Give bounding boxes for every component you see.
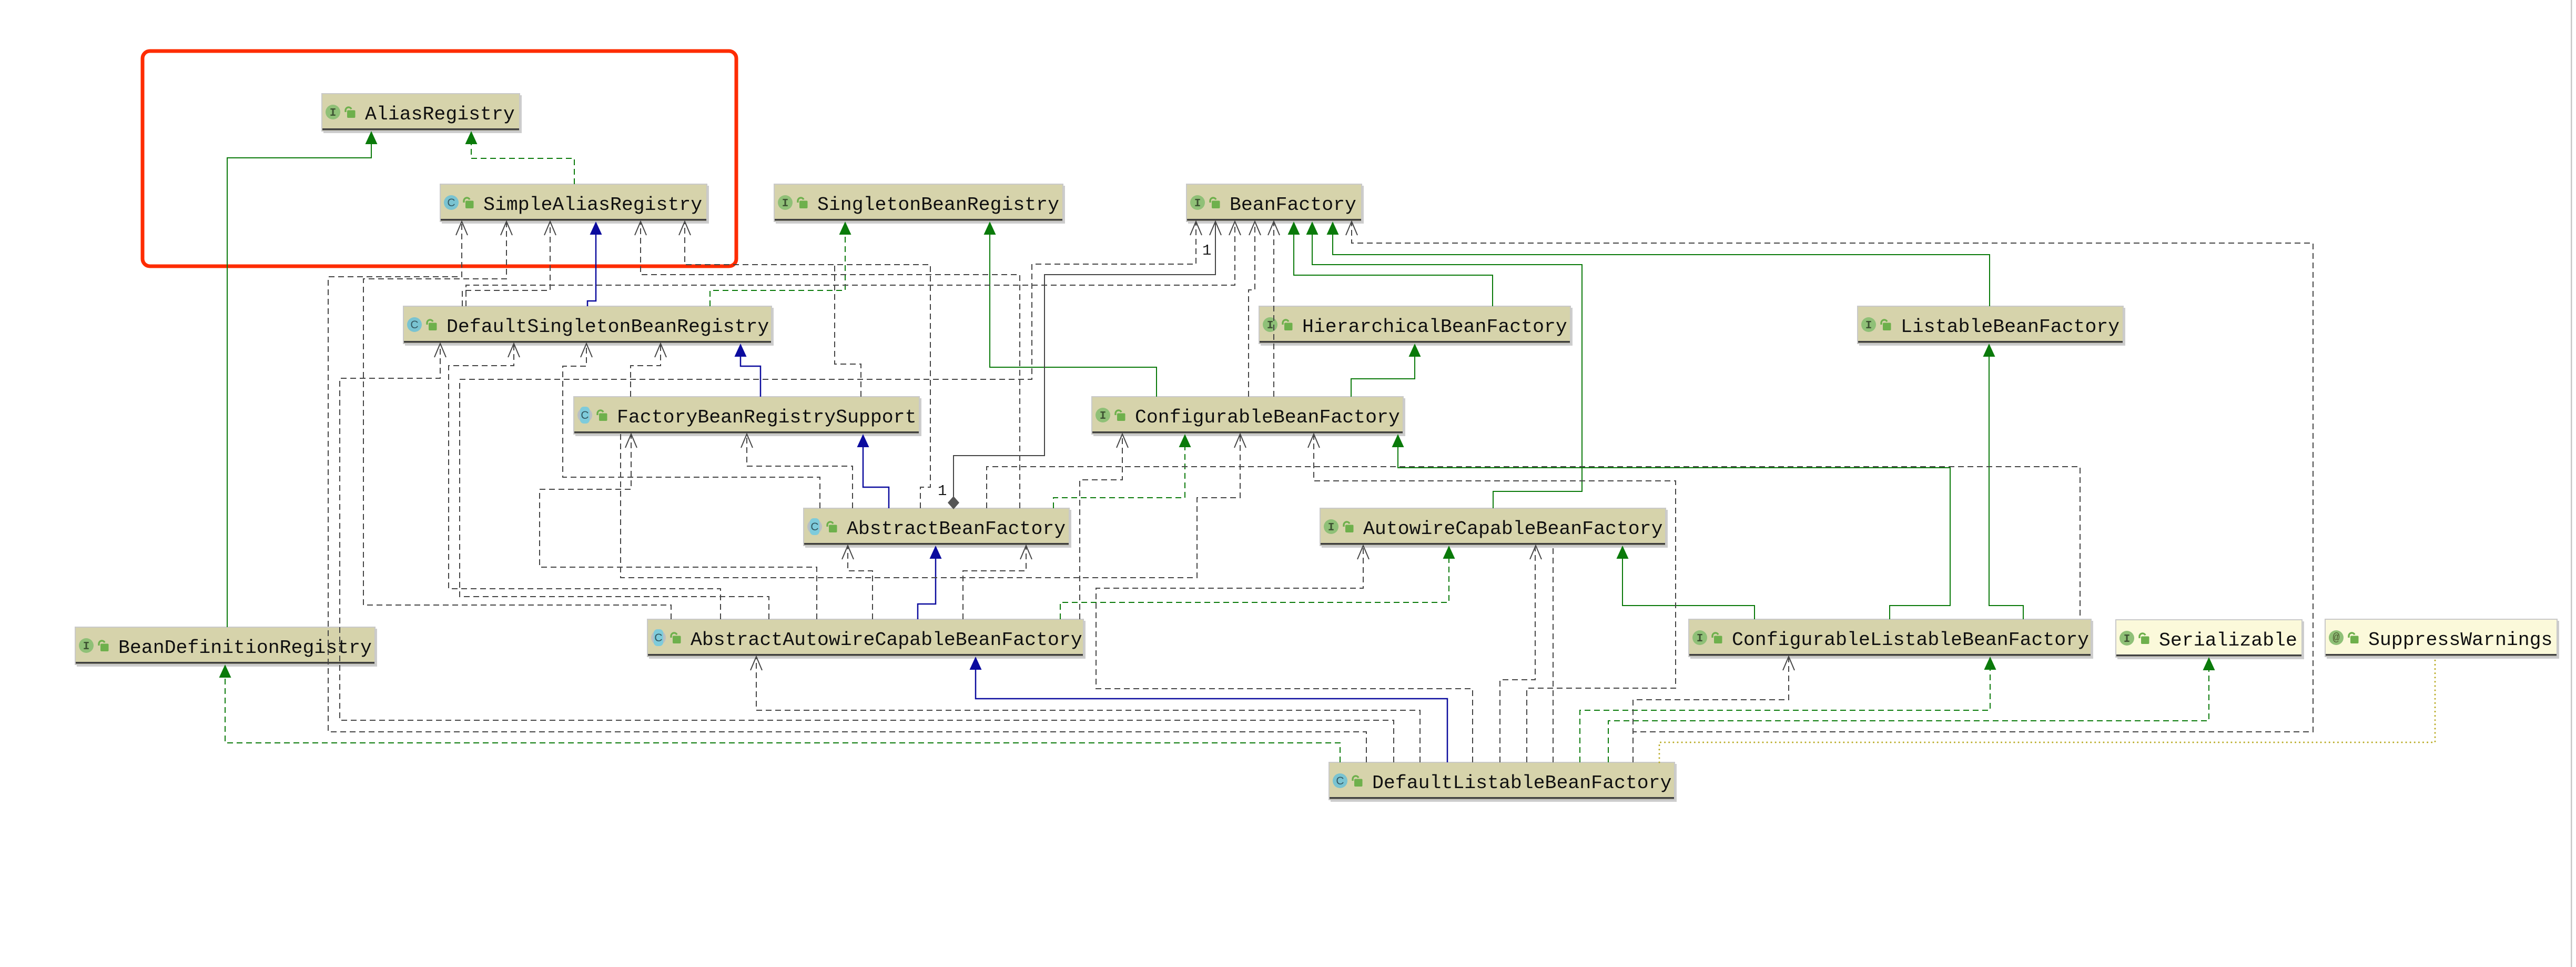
svg-text:SuppressWarnings: SuppressWarnings xyxy=(2368,629,2552,651)
svg-text:I: I xyxy=(330,107,337,119)
wire FactoryBeanRegistrySupport depends DefaultSingletonBeanRegistry xyxy=(631,345,661,397)
node box AutowireCapableBeanFactory xyxy=(1320,508,1668,548)
wire ConfigurableBeanFactory depends BeanFactory xyxy=(1249,223,1255,397)
wire DefaultListableBeanFactory implements ConfigurableListableBeanFactory (green dashed) xyxy=(1580,658,1990,762)
svg-text:C: C xyxy=(654,632,662,644)
svg-text:I: I xyxy=(1865,320,1872,332)
node box Serializable xyxy=(2116,620,2304,659)
node box DefaultListableBeanFactory xyxy=(1329,762,1677,802)
wire DefaultSingletonBeanRegistry depends SimpleAliasRegistry xyxy=(462,223,550,306)
svg-text:FactoryBeanRegistrySupport: FactoryBeanRegistrySupport xyxy=(617,407,917,428)
wire BeanDefinitionRegistry extends AliasRegistry (green) xyxy=(227,133,371,627)
wire HierarchicalBeanFactory extends BeanFactory (green) xyxy=(1294,223,1493,306)
wire FactoryBeanRegistrySupport stub toward SimpleAliasRegistry xyxy=(835,265,861,397)
wire AbstractAutowireCapableBeanFactory extends AbstractBeanFactory (navy) xyxy=(918,547,936,619)
node red highlight frame xyxy=(143,51,736,266)
svg-text:BeanFactory: BeanFactory xyxy=(1230,194,1356,216)
svg-text:I: I xyxy=(1697,633,1703,645)
svg-text:C: C xyxy=(1336,775,1344,787)
node box AbstractBeanFactory xyxy=(804,508,1071,548)
svg-text:@: @ xyxy=(2332,631,2339,644)
wire DefaultListableBeanFactory toward AutowireCapableBeanFactory (dashed) xyxy=(1553,548,1554,762)
svg-text:HierarchicalBeanFactory: HierarchicalBeanFactory xyxy=(1302,316,1567,338)
node box HierarchicalBeanFactory xyxy=(1259,306,1573,346)
wire AbstractAutowireCapableBeanFactory depends BeanFactory xyxy=(460,223,1196,619)
node box BeanDefinitionRegistry xyxy=(75,627,377,667)
wire DefaultListableBeanFactory implements BeanDefinitionRegistry (green dashed) xyxy=(225,666,1340,762)
svg-text:Serializable: Serializable xyxy=(2159,630,2297,651)
wire AbstractBeanFactory depends SimpleAliasRegistry 2 xyxy=(685,223,930,508)
svg-text:ConfigurableListableBeanFactor: ConfigurableListableBeanFactory xyxy=(1732,629,2089,651)
node diamond aggregation at AbstractBeanFactory xyxy=(948,496,959,509)
svg-text:C: C xyxy=(810,521,818,533)
svg-text:I: I xyxy=(1194,198,1201,210)
svg-text:BeanDefinitionRegistry: BeanDefinitionRegistry xyxy=(118,637,372,659)
svg-text:AutowireCapableBeanFactory: AutowireCapableBeanFactory xyxy=(1363,518,1663,540)
wire AbstractAutowireCapableBeanFactory depends DefaultSingletonBeanRegistry xyxy=(449,345,721,619)
wire FactoryBeanRegistrySupport depends ConfigurableBeanFactory xyxy=(621,434,1240,578)
svg-text:I: I xyxy=(83,641,90,653)
svg-text:I: I xyxy=(1328,522,1335,534)
wire AbstractAutowireCapableBeanFactory depends SimpleAliasRegistry xyxy=(363,223,671,619)
wire ListableBeanFactory extends BeanFactory (green) xyxy=(1333,223,1990,306)
wire DefaultListableBeanFactory depends AutowireCapableBeanFactory xyxy=(1096,547,1473,762)
svg-text:I: I xyxy=(1267,320,1274,332)
svg-text:I: I xyxy=(782,198,789,210)
svg-text:1: 1 xyxy=(938,482,947,500)
wire DefaultListableBeanFactory depends ConfigurableListableBeanFactory xyxy=(1633,658,1789,762)
wire ConfigurableListableBeanFactory extends ConfigurableBeanFactory (green) xyxy=(1398,436,1950,619)
svg-text:DefaultListableBeanFactory: DefaultListableBeanFactory xyxy=(1372,772,1672,794)
wire SimpleAliasRegistry implements AliasRegistry (green dashed) xyxy=(471,133,574,184)
wire ConfigurableBeanFactory extends HierarchicalBeanFactory (green) xyxy=(1351,345,1415,397)
node box SingletonBeanRegistry xyxy=(774,184,1065,224)
wire DefaultListableBeanFactory annotated SuppressWarnings (dotted) xyxy=(1659,658,2435,762)
wire DefaultSingletonBeanRegistry depends BeanFactory xyxy=(466,223,1235,306)
node box DefaultSingletonBeanRegistry xyxy=(403,306,774,346)
wire AutowireCapableBeanFactory extends BeanFactory (green) xyxy=(1312,223,1582,508)
wire DefaultListableBeanFactory depends SimpleAliasRegistry xyxy=(328,223,1366,762)
svg-text:AbstractAutowireCapableBeanFac: AbstractAutowireCapableBeanFactory xyxy=(691,629,1082,651)
wire AbstractAutowireCapableBeanFactory depends ConfigurableBeanFactory xyxy=(1080,436,1122,619)
svg-text:I: I xyxy=(1100,410,1107,422)
wire AbstractAutowireCapableBeanFactory depends FactoryBeanRegistrySupport xyxy=(540,436,817,619)
node box ConfigurableBeanFactory xyxy=(1092,397,1405,436)
svg-text:C: C xyxy=(410,319,418,331)
wire AbstractAutowireCapableBeanFactory depends AbstractBeanFactory xyxy=(848,547,873,619)
wire AbstractAutowireCapableBeanFactory depends AbstractBeanFactory 2 xyxy=(963,547,1026,619)
node box SuppressWarnings xyxy=(2325,619,2559,659)
wire AbstractBeanFactory implements ConfigurableBeanFactory (green dashed) xyxy=(1053,436,1185,508)
wire DefaultListableBeanFactory depends BeanFactory xyxy=(1352,223,2313,762)
wire DefaultListableBeanFactory depends ConfigurableBeanFactory 2 xyxy=(1314,436,1676,762)
wire AbstractBeanFactory depends DefaultSingletonBeanRegistry xyxy=(563,345,820,508)
wire ConfigurableListableBeanFactory extends AutowireCapableBeanFactory (green) xyxy=(1622,547,1754,619)
wire AbstractBeanFactory toward ConfigurableListableBeanFactory xyxy=(987,467,2080,619)
svg-text:C: C xyxy=(581,409,589,421)
node box AliasRegistry xyxy=(322,94,522,133)
wire DefaultSingletonBeanRegistry implements SingletonBeanRegistry (green dashed) xyxy=(710,223,845,306)
wire ConfigurableListableBeanFactory extends ListableBeanFactory (green) xyxy=(1989,345,2023,619)
svg-text:ListableBeanFactory: ListableBeanFactory xyxy=(1901,316,2119,338)
wire DefaultListableBeanFactory implements Serializable (green dashed) xyxy=(1608,659,2209,762)
svg-text:I: I xyxy=(2124,633,2131,646)
wire AbstractBeanFactory depends FactoryBeanRegistrySupport xyxy=(747,436,853,508)
wire DefaultListableBeanFactory depends DefaultSingletonBeanRegistry xyxy=(340,345,1394,762)
node box ListableBeanFactory xyxy=(1858,306,2125,346)
svg-text:C: C xyxy=(447,197,455,209)
wire DefaultListableBeanFactory extends AbstractAutowireCapableBeanFactory (navy) xyxy=(976,658,1447,762)
node box FactoryBeanRegistrySupport xyxy=(574,397,921,436)
node canvas right edge divider xyxy=(2571,0,2572,967)
node box AbstractAutowireCapableBeanFactory xyxy=(647,619,1086,659)
node box ConfigurableListableBeanFactory xyxy=(1689,619,2093,659)
svg-text:SimpleAliasRegistry: SimpleAliasRegistry xyxy=(483,194,702,216)
wire DefaultSingletonBeanRegistry extends SimpleAliasRegistry (navy) xyxy=(587,223,596,306)
svg-text:AliasRegistry: AliasRegistry xyxy=(365,104,515,125)
svg-text:1: 1 xyxy=(1202,242,1211,259)
wire AbstractBeanFactory depends SimpleAliasRegistry xyxy=(641,223,1020,508)
svg-text:SingletonBeanRegistry: SingletonBeanRegistry xyxy=(817,194,1059,216)
wire DefaultListableBeanFactory depends AbstractAutowireCapableBeanFactory xyxy=(756,658,1420,762)
wire AbstractAutowireCapableBeanFactory implements AutowireCapableBeanFactory (green dashed) xyxy=(1060,547,1449,619)
wire AbstractBeanFactory aggregation BeanFactory (solid, diamond) xyxy=(954,223,1215,497)
node box BeanFactory xyxy=(1186,184,1364,224)
wire FactoryBeanRegistrySupport extends DefaultSingletonBeanRegistry (navy) xyxy=(741,345,760,397)
svg-text:DefaultSingletonBeanRegistry: DefaultSingletonBeanRegistry xyxy=(447,316,769,338)
wire ConfigurableBeanFactory depends BeanFactory 2 xyxy=(1273,223,1274,397)
wire DefaultListableBeanFactory depends AutowireCapableBeanFactory 2 xyxy=(1500,547,1535,762)
wire ConfigurableBeanFactory extends SingletonBeanRegistry (green) xyxy=(990,223,1157,397)
wire AbstractBeanFactory extends FactoryBeanRegistrySupport (navy) xyxy=(863,436,889,508)
svg-text:ConfigurableBeanFactory: ConfigurableBeanFactory xyxy=(1135,407,1400,428)
node box SimpleAliasRegistry xyxy=(440,184,709,224)
svg-text:AbstractBeanFactory: AbstractBeanFactory xyxy=(847,518,1066,540)
